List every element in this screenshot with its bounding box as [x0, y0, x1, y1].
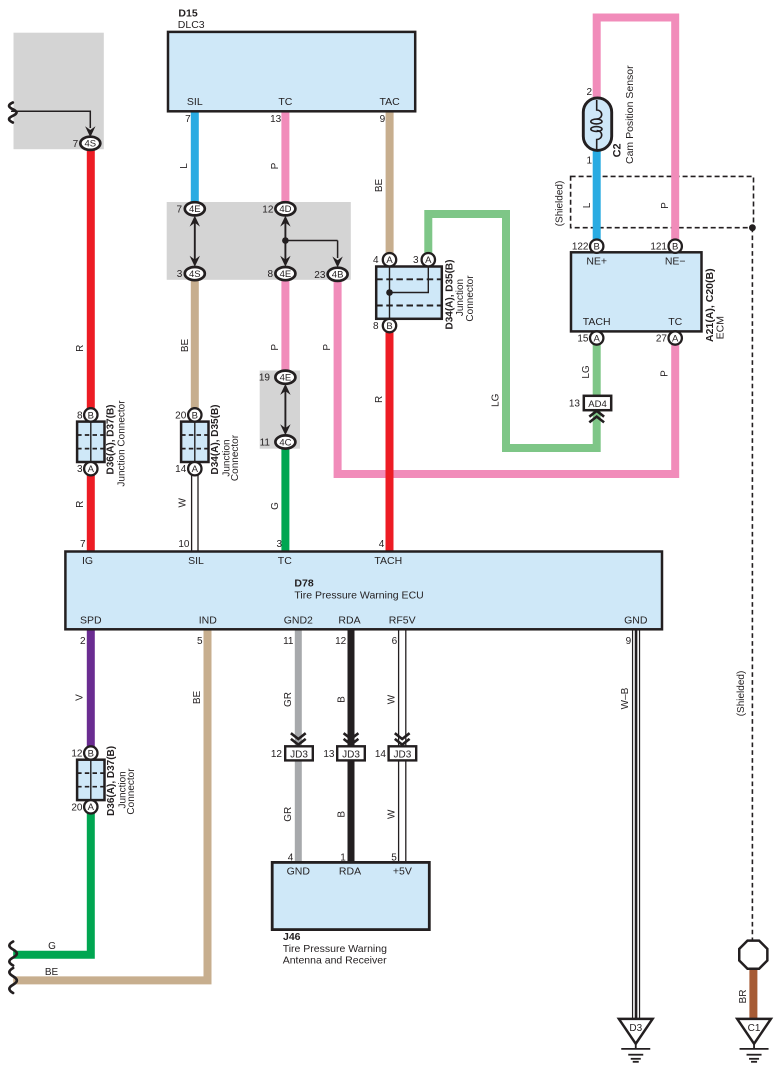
wire GR (D78 GND2 to JD3): [295, 629, 302, 746]
svg-text:(Shielded): (Shielded): [555, 181, 566, 227]
svg-text:B: B: [192, 410, 198, 421]
continuation squiggle (BE wire): [9, 968, 17, 993]
svg-text:NE−: NE−: [665, 256, 686, 268]
svg-text:B: B: [672, 242, 678, 253]
svg-text:Antenna and Receiver: Antenna and Receiver: [283, 955, 387, 967]
svg-text:11: 11: [260, 438, 271, 449]
shield junction dot: [749, 224, 756, 231]
svg-text:DLC3: DLC3: [178, 19, 205, 31]
junction connector D34(A),D35(B) box (SIL column): [181, 422, 208, 462]
svg-text:Junction Connector: Junction Connector: [116, 400, 127, 487]
wire R (IG column, 4S to D78 IG): [87, 149, 95, 552]
ECM pin 121 B: [669, 240, 682, 253]
shield dashed box around L and P wires: [571, 176, 754, 227]
wire W (junction 14A to D78 SIL): [191, 475, 193, 552]
svg-text:B: B: [337, 696, 348, 703]
svg-text:3: 3: [276, 539, 282, 550]
svg-text:6: 6: [392, 636, 398, 647]
svg-text:+5V: +5V: [393, 866, 412, 878]
svg-text:12: 12: [262, 204, 274, 215]
connector oval 11 4C: [275, 435, 295, 448]
svg-text:19: 19: [259, 373, 271, 384]
svg-text:A: A: [192, 464, 199, 475]
wire P (DLC3 TC to 4D): [281, 110, 289, 204]
svg-text:G: G: [48, 941, 56, 952]
svg-text:2: 2: [586, 87, 592, 98]
ground C1: [737, 1019, 771, 1044]
ECM box: [571, 252, 702, 331]
svg-text:TAC: TAC: [379, 96, 400, 108]
svg-text:A: A: [594, 333, 601, 344]
wire BR (shield octagon to ground C1): [749, 968, 757, 1020]
ECM pin 122 B: [590, 240, 603, 253]
svg-text:P: P: [322, 344, 333, 351]
receiver J46 box: [272, 862, 429, 929]
double arrow 7(4E) to 3(4S): [194, 222, 196, 260]
svg-text:IG: IG: [82, 555, 93, 567]
ground D3: [619, 1019, 653, 1044]
svg-text:Tire Pressure Warning: Tire Pressure Warning: [283, 943, 387, 955]
svg-text:D36(A), D37(B): D36(A), D37(B): [105, 404, 116, 474]
svg-text:D36(A), D37(B): D36(A), D37(B): [106, 746, 117, 816]
svg-text:3: 3: [177, 269, 183, 280]
svg-text:W: W: [387, 809, 398, 819]
junction connector D36/D37 (SPD) pins: [84, 746, 97, 759]
wire L (C2 pin1 to ECM NE+ 122B): [593, 149, 601, 240]
svg-text:TC: TC: [278, 555, 292, 567]
connector D15 DLC3 box: [168, 32, 415, 111]
svg-text:A: A: [672, 333, 679, 344]
ECU D78 box: [65, 552, 662, 630]
svg-text:R: R: [75, 345, 86, 352]
svg-text:3: 3: [413, 255, 419, 266]
svg-text:JD3: JD3: [342, 749, 360, 760]
wire BE (D78 IND to left edge): [13, 629, 207, 980]
svg-text:GR: GR: [283, 692, 294, 707]
gray harness box top-left: [14, 33, 104, 150]
svg-text:B: B: [337, 811, 348, 818]
svg-text:Tire Pressure Warning ECU: Tire Pressure Warning ECU: [294, 590, 423, 602]
svg-text:BE: BE: [45, 967, 59, 978]
svg-text:20: 20: [71, 802, 83, 813]
svg-text:D78: D78: [294, 578, 313, 590]
svg-text:GND2: GND2: [284, 615, 313, 627]
connector 14 JD3 box: [389, 746, 417, 760]
gray harness box TC column (4E/4C connectors): [260, 371, 300, 449]
connector 12 JD3 box: [285, 746, 313, 760]
wire BE (4S to junction 20B): [191, 279, 199, 411]
ECM pin 27 A: [669, 331, 682, 344]
svg-text:4S: 4S: [84, 139, 96, 150]
svg-text:SIL: SIL: [187, 96, 203, 108]
svg-text:B: B: [386, 321, 392, 332]
svg-text:L: L: [582, 202, 593, 208]
svg-text:7: 7: [73, 139, 79, 150]
svg-text:4E: 4E: [189, 204, 201, 215]
continuation squiggle top-left: [9, 103, 16, 123]
svg-text:7: 7: [176, 204, 182, 215]
svg-text:J46: J46: [283, 931, 301, 943]
svg-text:12: 12: [335, 636, 347, 647]
svg-text:B: B: [594, 242, 600, 253]
wire L (DLC3 SIL to 4E): [191, 110, 199, 204]
junction connector D34/D35 (wide) pins: [383, 253, 396, 266]
svg-text:TC: TC: [278, 96, 292, 108]
wire P (8 4E to 19 4E): [281, 279, 289, 373]
svg-text:4: 4: [379, 539, 385, 550]
connector oval 3 4S: [185, 267, 205, 280]
svg-text:P: P: [660, 202, 671, 209]
svg-text:ECM: ECM: [715, 316, 727, 339]
svg-text:Cam Position Sensor: Cam Position Sensor: [624, 65, 636, 164]
svg-text:W: W: [387, 694, 398, 704]
junction connector D36(A),D37(B) box (SPD column): [77, 760, 104, 800]
svg-text:B: B: [88, 410, 94, 421]
svg-text:8: 8: [267, 269, 273, 280]
svg-text:5: 5: [391, 853, 397, 864]
svg-text:10: 10: [178, 539, 190, 550]
svg-text:SPD: SPD: [80, 615, 102, 627]
svg-text:A: A: [88, 802, 95, 813]
svg-text:9: 9: [626, 636, 632, 647]
svg-text:BR: BR: [738, 990, 749, 1004]
svg-text:JD3: JD3: [290, 749, 308, 760]
svg-text:23: 23: [314, 270, 326, 281]
svg-text:4B: 4B: [332, 270, 344, 281]
svg-text:R: R: [75, 501, 86, 508]
svg-text:P: P: [270, 162, 281, 169]
connector oval 7 4S (top-left): [80, 137, 100, 150]
connector 13 AD4 box: [584, 396, 611, 410]
svg-text:Connector: Connector: [126, 768, 137, 815]
wire W (D78 RF5V to JD3): [398, 629, 400, 746]
svg-text:9: 9: [380, 114, 386, 125]
wire P loop (C2 pin2 to ECM NE- 121B): [597, 18, 676, 241]
connector oval 7 4E: [185, 202, 205, 215]
wire GR (JD3 to J46 GND): [295, 760, 302, 862]
svg-text:1: 1: [340, 853, 346, 864]
svg-text:V: V: [75, 694, 86, 701]
svg-text:13: 13: [270, 114, 282, 125]
wire B (JD3 to J46 RDA): [348, 760, 355, 862]
svg-text:D3: D3: [629, 1023, 642, 1034]
wire V (D78 SPD to junction 12B): [87, 629, 95, 746]
svg-text:TACH: TACH: [374, 555, 402, 567]
svg-text:LG: LG: [490, 393, 501, 407]
svg-text:SIL: SIL: [188, 555, 204, 567]
svg-text:LG: LG: [581, 365, 592, 379]
continuation squiggle (G wire): [9, 942, 17, 966]
JD3 chevron (RF5V): [395, 733, 410, 739]
svg-text:5: 5: [197, 636, 203, 647]
svg-text:JD3: JD3: [394, 749, 412, 760]
C2 coil symbol: [597, 100, 602, 119]
svg-text:11: 11: [283, 636, 294, 647]
junction connector D36/D37 pins: [84, 408, 97, 421]
svg-text:(Shielded): (Shielded): [736, 671, 747, 717]
svg-text:RF5V: RF5V: [389, 615, 416, 627]
svg-text:NE+: NE+: [586, 256, 607, 268]
wire G (junction 20A to left edge): [13, 813, 91, 955]
svg-text:A: A: [425, 255, 432, 266]
svg-text:Connector: Connector: [230, 434, 241, 481]
svg-text:1: 1: [586, 155, 592, 166]
svg-text:20: 20: [175, 410, 187, 421]
wire BE (DLC3 TAC to junction 4A): [386, 110, 394, 254]
svg-text:8: 8: [373, 321, 379, 332]
junction connector D36(A),D37(B) box (IG column): [77, 422, 104, 462]
branch dot and line to 23(4B): [282, 237, 289, 244]
svg-text:4: 4: [288, 853, 294, 864]
wire G (11 4C to D78 TC): [281, 447, 289, 552]
connector oval 12 4D: [275, 202, 295, 215]
wire R (junction 8B to D78 TACH): [386, 332, 394, 552]
svg-text:GR: GR: [283, 807, 294, 822]
svg-text:BE: BE: [180, 339, 191, 353]
svg-text:4S: 4S: [189, 269, 201, 280]
branch line with arrow into 4S (top-left): [11, 111, 90, 128]
wire LG loop (junction 3A to ECM TACH 15A): [428, 214, 596, 448]
svg-text:7: 7: [185, 114, 191, 125]
connector oval 8 4E: [275, 267, 295, 280]
junction connector D34/D35 (SIL) pins: [188, 408, 201, 421]
svg-text:4C: 4C: [279, 437, 291, 448]
svg-text:G: G: [270, 502, 281, 510]
svg-text:TC: TC: [668, 316, 682, 328]
svg-text:D15: D15: [178, 8, 197, 20]
AD4 shield chevron: [589, 411, 604, 417]
connector 13 JD3 box: [337, 746, 365, 760]
double arrow 19(4E) to 11(4C): [284, 390, 286, 429]
svg-text:IND: IND: [199, 615, 218, 627]
svg-text:13: 13: [323, 749, 335, 760]
wire B (D78 RDA to JD3): [348, 629, 355, 746]
ECM pin 15 A: [590, 331, 603, 344]
junction connector D34(A),D35(B) box (wide, TAC column): [376, 267, 442, 319]
svg-text:TACH: TACH: [583, 316, 611, 328]
svg-text:W–B: W–B: [620, 687, 631, 709]
svg-text:W: W: [178, 498, 189, 508]
svg-text:BE: BE: [374, 179, 385, 193]
svg-text:3: 3: [77, 464, 83, 475]
double arrow 12(4D) to 8(4E): [284, 222, 286, 260]
svg-text:B: B: [88, 748, 94, 759]
svg-text:15: 15: [577, 334, 589, 345]
connector oval 23 4B: [328, 268, 348, 281]
svg-text:GND: GND: [624, 615, 648, 627]
sensor C2 capsule: [583, 98, 611, 150]
svg-text:122: 122: [572, 242, 589, 253]
svg-text:12: 12: [71, 749, 83, 760]
gray harness box centre (4E/4D/4S/4B connectors): [167, 202, 351, 280]
svg-text:L: L: [179, 163, 190, 169]
wire P (23 4B loop to ECM TC 27A): [338, 279, 676, 474]
svg-text:12: 12: [271, 749, 283, 760]
svg-text:4E: 4E: [280, 269, 292, 280]
svg-text:C1: C1: [748, 1023, 761, 1034]
svg-text:2: 2: [80, 636, 86, 647]
svg-text:RDA: RDA: [339, 866, 361, 878]
svg-text:13: 13: [569, 399, 581, 410]
svg-text:4D: 4D: [279, 204, 291, 215]
shield dashed drain line to C1: [751, 228, 753, 941]
svg-text:D34(A), D35(B): D34(A), D35(B): [210, 404, 221, 474]
svg-text:C2: C2: [612, 143, 624, 157]
svg-text:R: R: [374, 396, 385, 403]
shield octagon: [739, 941, 767, 969]
JD3 chevron (RDA): [344, 733, 359, 739]
JD3 chevron (GND2): [291, 733, 306, 739]
wire W (JD3 to J46 +5V): [398, 760, 400, 862]
svg-text:RDA: RDA: [338, 615, 360, 627]
svg-text:AD4: AD4: [588, 399, 606, 410]
svg-text:A: A: [88, 464, 95, 475]
svg-text:P: P: [660, 370, 671, 377]
svg-text:14: 14: [175, 464, 187, 475]
svg-text:121: 121: [650, 242, 667, 253]
svg-text:A: A: [386, 255, 393, 266]
svg-text:GND: GND: [287, 866, 311, 878]
wire W-B (D78 GND to ground D3): [632, 629, 634, 1019]
svg-text:27: 27: [656, 334, 668, 345]
svg-text:7: 7: [80, 539, 86, 550]
svg-text:14: 14: [375, 749, 387, 760]
svg-text:Connector: Connector: [465, 275, 476, 322]
svg-text:P: P: [270, 344, 281, 351]
svg-text:4E: 4E: [280, 373, 292, 384]
svg-text:8: 8: [77, 410, 83, 421]
svg-text:BE: BE: [192, 691, 203, 705]
svg-text:4: 4: [373, 255, 379, 266]
connector oval 19 4E: [275, 371, 295, 384]
